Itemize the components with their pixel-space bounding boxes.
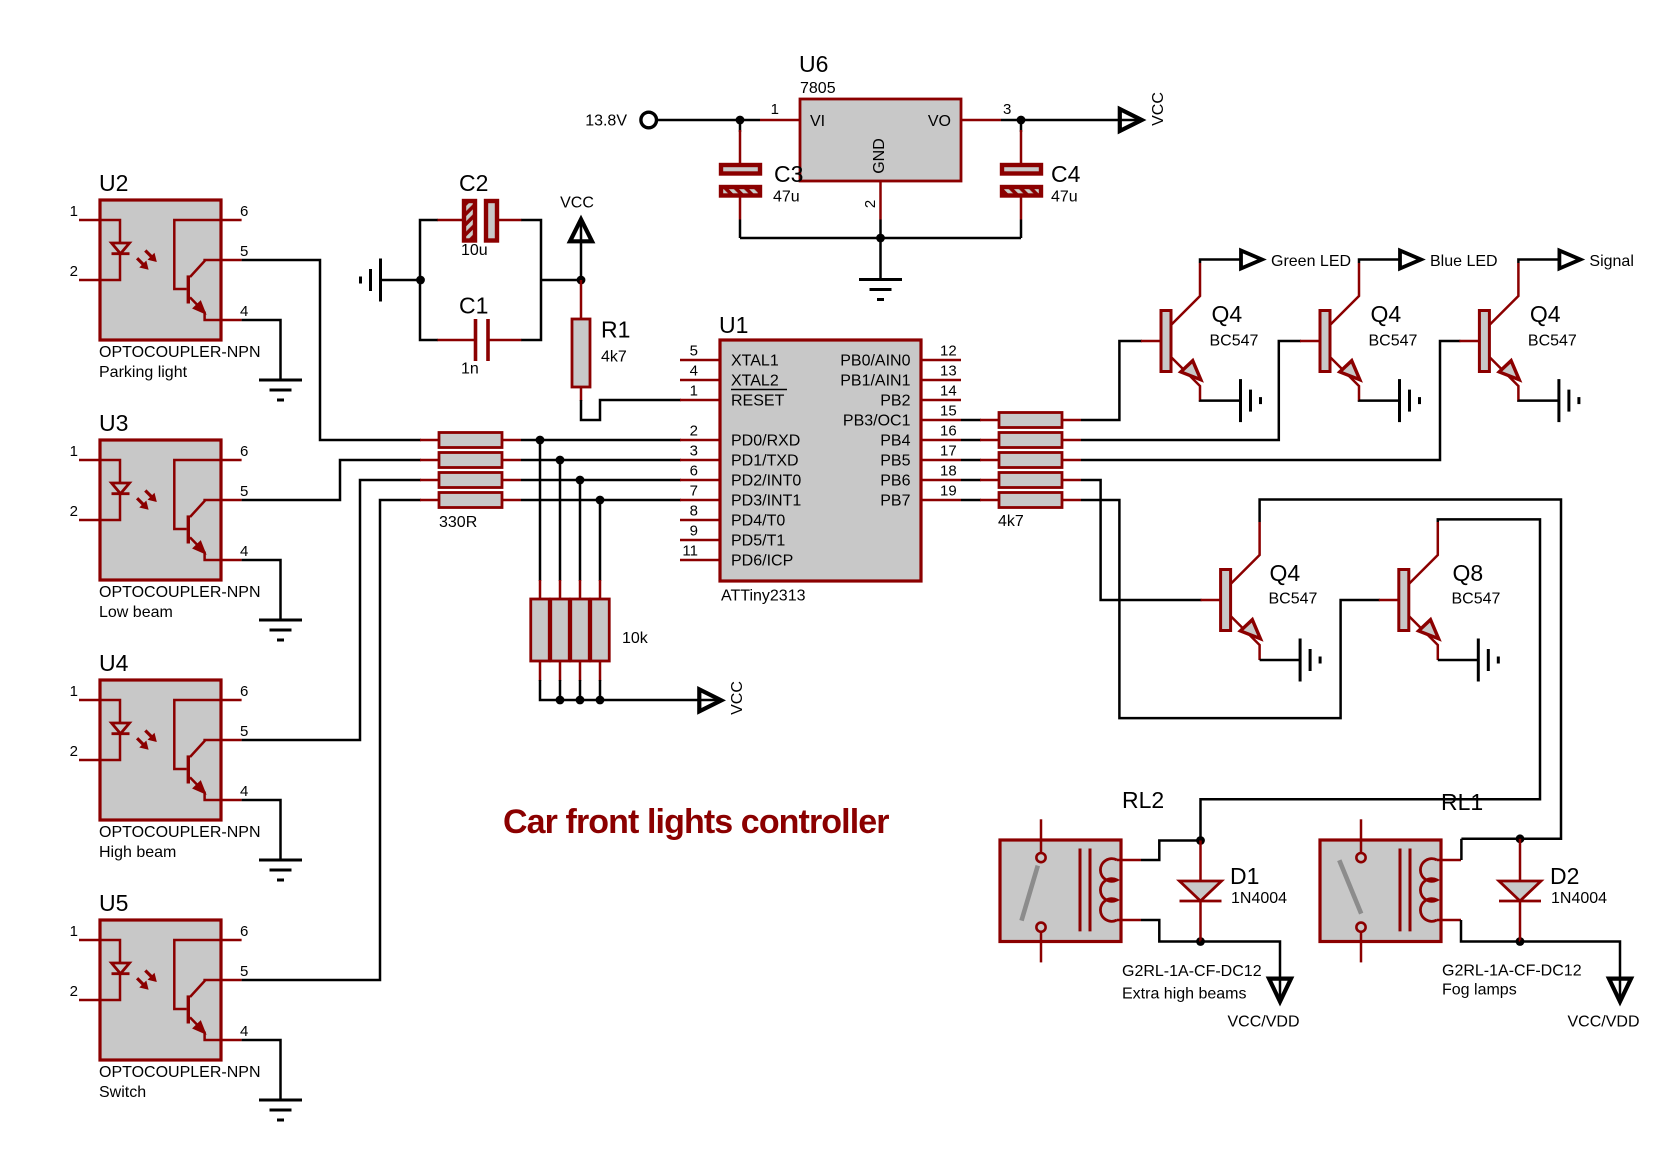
pin 10k r2 top	[559, 580, 562, 601]
svg-text:4: 4	[240, 1023, 248, 1040]
wire ground rail C3-GND-C4	[740, 237, 1021, 240]
U2 LED cathode bar	[112, 252, 130, 255]
wire RL1 coil bottom to node	[1461, 920, 1521, 942]
svg-text:Blue LED: Blue LED	[1430, 253, 1498, 270]
relay RL1 body	[1320, 840, 1441, 942]
svg-text:3: 3	[1003, 101, 1011, 118]
svg-text:1: 1	[70, 203, 78, 220]
wire U1 to 4k7 r3	[961, 459, 981, 462]
pin 4k7 r1 right	[1062, 419, 1081, 422]
svg-text:BC547: BC547	[1528, 333, 1577, 350]
wire loop right bottom	[521, 280, 541, 340]
power flag VCC (pullup rail)	[699, 689, 721, 711]
svg-text:4: 4	[690, 363, 698, 380]
U2 collector	[190, 260, 221, 277]
wire Q4d emitter to ground	[1260, 659, 1300, 662]
resistor 330R r1	[439, 433, 502, 448]
pin U3.2	[79, 519, 100, 522]
relay RL2 body	[1000, 840, 1121, 942]
svg-text:Q4: Q4	[1270, 560, 1301, 586]
U3 emitter	[190, 537, 221, 560]
pin U1.3 (PD1/TXD) stub	[680, 459, 720, 462]
wire Q4b collector up	[1359, 260, 1400, 264]
pin U2.1	[79, 219, 100, 222]
pin C1 right	[488, 339, 521, 342]
wire 4k7 PB6 to Q4d base	[1081, 480, 1202, 600]
U2 light arrow 1	[145, 251, 152, 258]
svg-text:1n: 1n	[461, 361, 479, 378]
RESET overline	[731, 389, 787, 391]
U2 emitter	[190, 297, 221, 320]
pin C2 right	[498, 219, 522, 222]
optocoupler U5 body	[100, 920, 221, 1060]
pin U5.5	[221, 979, 242, 982]
svg-text:Low beam: Low beam	[99, 604, 173, 621]
pin C2 left	[438, 219, 464, 222]
junction PD2/pullup	[576, 476, 585, 485]
svg-text:6: 6	[240, 203, 248, 220]
wire 4k7 to Q4a base	[1081, 341, 1142, 420]
junction loop left	[416, 276, 425, 285]
svg-text:11: 11	[682, 543, 698, 560]
Q4a emitter arrowhead	[1181, 361, 1201, 380]
wire loop right top	[521, 220, 541, 280]
resistor 10k r4	[591, 599, 610, 661]
U4 LED triangle	[112, 723, 130, 734]
svg-text:5: 5	[690, 343, 698, 360]
wire R1 to RESET	[581, 400, 681, 420]
U3 LED cathode wire	[100, 494, 120, 520]
pin Q4c emitter	[1489, 357, 1518, 401]
resistor 4k7 r3	[999, 453, 1062, 468]
pin U1.15 (PB3/OC1) stub	[921, 419, 961, 422]
Q4c emitter arrowhead	[1499, 361, 1519, 380]
U3 transistor base bar	[187, 515, 190, 543]
U3 LED triangle	[112, 483, 130, 494]
capacitor C1 plate A	[474, 319, 478, 361]
wire pullup rail to VCC	[540, 680, 720, 700]
pin 4k7 r1 left	[980, 419, 999, 422]
svg-text:47u: 47u	[773, 189, 800, 206]
wire U2.4 to ground	[242, 320, 281, 380]
svg-text:2: 2	[70, 263, 78, 280]
U5 base wire	[174, 940, 221, 1009]
capacitor C2 plate +	[486, 201, 497, 241]
pin Q4c collector	[1489, 263, 1518, 325]
RL1 contact circle bottom	[1356, 923, 1365, 932]
capacitor C2 plate - (hatched)	[464, 201, 475, 241]
svg-text:Car front lights controller: Car front lights controller	[503, 803, 889, 841]
svg-text:1: 1	[771, 101, 779, 118]
wire 4k7 PB7 to Q8 base	[1081, 500, 1380, 718]
svg-text:2: 2	[862, 200, 879, 208]
svg-text:Signal: Signal	[1589, 253, 1633, 270]
RL1 coil core bar 1	[1399, 849, 1402, 932]
ground (U6)	[859, 280, 902, 300]
pin U3.6	[221, 459, 242, 462]
svg-text:4: 4	[240, 783, 248, 800]
pin 10k r1 top	[539, 580, 542, 601]
U4 collector	[190, 740, 221, 757]
svg-text:18: 18	[940, 463, 957, 480]
svg-text:PB2: PB2	[880, 392, 910, 409]
svg-text:47u: 47u	[1051, 189, 1078, 206]
pin U4.4	[221, 799, 242, 802]
pin U1.6 (PD2/INT0) stub	[680, 479, 720, 482]
resistor 330R r2	[439, 453, 502, 468]
wire Q4b emitter to ground	[1359, 399, 1399, 402]
U2 emitter arrowhead	[193, 301, 205, 313]
ground (Q8)	[1478, 639, 1498, 682]
U3 base wire	[174, 460, 221, 529]
wire Q4c collector up	[1518, 260, 1559, 264]
U4 LED cathode wire	[100, 734, 120, 760]
svg-text:1: 1	[70, 683, 78, 700]
pin U6 VO stub	[961, 119, 1001, 122]
ground (U4)	[259, 860, 302, 880]
svg-text:13.8V: 13.8V	[585, 113, 627, 130]
microcontroller U1 body	[720, 340, 921, 581]
wire C3 top black	[739, 120, 742, 132]
wire RL2 coil bottom to node	[1141, 920, 1201, 942]
pin 4k7 r3 left	[980, 459, 999, 462]
pin U5.4	[221, 1039, 242, 1042]
wire 13.8V to VI	[657, 119, 761, 122]
U5 light arrow 2	[137, 978, 144, 985]
junction D1 anode	[1196, 836, 1205, 845]
pin Q4a emitter	[1171, 357, 1200, 401]
optocoupler U4 body	[100, 680, 221, 820]
pin RL2 contact bottom	[1040, 932, 1043, 963]
pin Q8 collector	[1409, 522, 1438, 584]
svg-text:PB0/AIN0: PB0/AIN0	[840, 352, 910, 369]
ground (Q4b)	[1400, 379, 1420, 422]
ground (U5)	[259, 1100, 302, 1120]
wire 4k7 to Q4b base	[1081, 341, 1301, 440]
svg-text:Q4: Q4	[1371, 301, 1402, 327]
svg-text:VCC: VCC	[560, 195, 594, 212]
U5 LED cathode wire	[100, 974, 120, 1000]
pin U1.16 (PB4) stub	[921, 439, 961, 442]
wire U2.5 to RN row1	[242, 260, 421, 440]
voltage regulator U6 7805	[800, 99, 961, 181]
wire D1 node to VCC/VDD	[1201, 942, 1281, 1001]
svg-text:VCC: VCC	[729, 681, 746, 715]
svg-text:ATTiny2313: ATTiny2313	[721, 588, 806, 605]
wire VCC stem	[580, 221, 583, 280]
U3 emitter arrowhead	[193, 541, 205, 553]
wire pullup 3 vertical	[579, 480, 582, 581]
wire C3 top	[739, 130, 742, 165]
pin 4k7 r2 left	[980, 439, 999, 442]
RL2 contact circle top	[1036, 853, 1045, 862]
svg-text:Q4: Q4	[1530, 301, 1561, 327]
resistor 4k7 r1	[999, 413, 1062, 428]
pin RL1 coil top	[1437, 859, 1461, 862]
svg-text:Parking light: Parking light	[99, 364, 188, 381]
svg-text:12: 12	[940, 343, 957, 360]
svg-text:5: 5	[240, 483, 248, 500]
junction input/C3	[736, 116, 745, 125]
resistor 10k r1	[531, 599, 550, 661]
pin D2 cathode	[1519, 901, 1522, 942]
svg-text:XTAL1: XTAL1	[731, 352, 779, 369]
transistor Q4d base bar	[1221, 570, 1231, 631]
svg-text:OPTOCOUPLER-NPN: OPTOCOUPLER-NPN	[99, 344, 261, 361]
wire Q4c emitter to ground	[1518, 399, 1558, 402]
svg-text:14: 14	[940, 383, 957, 400]
wire pullup 4 vertical	[599, 500, 602, 581]
pin 330R r2 right	[502, 459, 521, 462]
diode D1 cathode bar	[1180, 900, 1222, 903]
U4 light arrow 1	[145, 731, 152, 738]
U4 emitter arrowhead	[193, 781, 205, 793]
pin Q4d base stub	[1201, 599, 1221, 602]
svg-text:2: 2	[70, 983, 78, 1000]
resistor 330R r3	[439, 473, 502, 488]
pin U5.2	[79, 999, 100, 1002]
RL2 coil core bar 1	[1079, 849, 1082, 932]
U5 LED cathode bar	[112, 972, 130, 975]
svg-text:5: 5	[240, 723, 248, 740]
svg-text:PB4: PB4	[880, 432, 910, 449]
svg-text:U3: U3	[99, 410, 128, 436]
svg-text:OPTOCOUPLER-NPN: OPTOCOUPLER-NPN	[99, 824, 261, 841]
svg-text:1: 1	[70, 443, 78, 460]
junction VO/C4	[1017, 116, 1026, 125]
wire 330R r1 to U1	[521, 439, 681, 442]
svg-text:RL2: RL2	[1122, 787, 1164, 813]
U2 transistor base bar	[187, 275, 190, 303]
svg-text:17: 17	[940, 443, 957, 460]
svg-text:15: 15	[940, 403, 957, 420]
U3 LED anode wire	[100, 460, 120, 483]
capacitor C3 plate - (hatched)	[721, 187, 760, 196]
svg-text:VCC/VDD: VCC/VDD	[1567, 1014, 1639, 1031]
U4 light arrow 2	[137, 738, 144, 745]
svg-text:Green LED: Green LED	[1271, 253, 1351, 270]
U3 LED cathode bar	[112, 492, 130, 495]
RL2 coil winding	[1100, 859, 1117, 922]
pin U1.5 (XTAL1) stub	[680, 359, 720, 362]
svg-text:D1: D1	[1230, 863, 1259, 889]
RL1 contact circle top	[1356, 853, 1365, 862]
U3 light arrow 2	[137, 498, 144, 505]
wire RL2 coil top to node	[1141, 841, 1201, 861]
U4 LED anode wire	[100, 700, 120, 723]
svg-text:5: 5	[240, 243, 248, 260]
pin U1.8 (PD4/T0) stub	[680, 519, 720, 522]
wire C3 bottom	[739, 196, 742, 220]
power flag VCC/VDD (RL1)	[1609, 979, 1631, 1002]
resistor 10k r3	[571, 599, 590, 661]
svg-text:G2RL-1A-CF-DC12: G2RL-1A-CF-DC12	[1122, 963, 1262, 980]
svg-text:1N4004: 1N4004	[1551, 890, 1607, 907]
U2 LED triangle	[112, 243, 130, 254]
pin D2 anode	[1519, 839, 1522, 881]
U3 collector	[190, 500, 221, 517]
ground (Q4a)	[1241, 379, 1261, 422]
svg-text:PD0/RXD: PD0/RXD	[731, 432, 800, 449]
pin 10k r4 bottom	[599, 660, 602, 681]
pin U1.14 (PB2) stub	[921, 399, 961, 402]
pin Q4a collector	[1171, 263, 1200, 325]
svg-text:8: 8	[690, 503, 698, 520]
ground (C2/C1)	[361, 259, 381, 302]
transistor Q4c base bar	[1479, 311, 1489, 372]
wire U1 to 4k7 r1	[961, 419, 981, 422]
U5 light arrow 1	[145, 971, 152, 978]
svg-text:7805: 7805	[800, 80, 836, 97]
svg-text:10u: 10u	[461, 242, 488, 259]
signal flag Signal	[1559, 251, 1580, 269]
U3 light arrow 1	[145, 491, 152, 498]
U4 base wire	[174, 700, 221, 769]
svg-text:PD5/T1: PD5/T1	[731, 532, 785, 549]
pin U1.19 (PB7) stub	[921, 499, 961, 502]
wire pullup2 drop	[559, 680, 562, 700]
pin U3.1	[79, 459, 100, 462]
pin U5.1	[79, 939, 100, 942]
wire Q8 emitter to ground	[1438, 659, 1478, 662]
pin RL1 contact bottom	[1360, 932, 1363, 963]
svg-text:U1: U1	[719, 312, 748, 338]
transistor Q4b base bar	[1320, 311, 1330, 372]
wire U6 GND down	[879, 220, 882, 239]
wire D2 node to VCC/VDD	[1520, 942, 1620, 1001]
resistor 330R r4	[439, 493, 502, 508]
wire U4.5 to RN row3	[242, 480, 421, 740]
junction D2 cathode	[1516, 937, 1525, 946]
U2 light arrow 2	[137, 258, 144, 265]
transistor Q4a base bar	[1161, 311, 1171, 372]
ground (U2)	[259, 380, 302, 400]
wire Q8 collector to RL2 coil	[1201, 519, 1541, 840]
pin U1.9 (PD5/T1) stub	[680, 539, 720, 542]
pin U1.11 (PD6/ICP) stub	[680, 559, 720, 562]
junction PD3/pullup	[596, 496, 605, 505]
svg-text:High beam: High beam	[99, 844, 176, 861]
pin D1 anode	[1199, 841, 1202, 882]
U5 transistor base bar	[187, 995, 190, 1023]
ground (Q4c)	[1559, 379, 1579, 422]
pin 4k7 r2 right	[1062, 439, 1081, 442]
pin U2.5	[221, 259, 242, 262]
svg-text:16: 16	[940, 423, 957, 440]
svg-text:RESET: RESET	[731, 392, 785, 409]
svg-text:BC547: BC547	[1369, 333, 1418, 350]
wire C4 top	[1020, 130, 1023, 165]
pin RL1 coil bottom	[1437, 919, 1461, 922]
wire U1 to 4k7 r4	[961, 479, 981, 482]
svg-text:PB1/AIN1: PB1/AIN1	[840, 372, 910, 389]
svg-text:6: 6	[240, 443, 248, 460]
svg-text:Q8: Q8	[1453, 560, 1484, 586]
wire ground stem U6	[879, 238, 882, 280]
svg-text:PB3/OC1: PB3/OC1	[843, 412, 911, 429]
pin U6 GND stub	[879, 181, 882, 220]
svg-text:PB7: PB7	[880, 492, 910, 509]
junction PD1/pullup	[556, 456, 565, 465]
diode D1 triangle	[1180, 881, 1222, 901]
pin 10k r2 bottom	[559, 660, 562, 681]
wire Q4a emitter to ground	[1200, 399, 1240, 402]
svg-text:RL1: RL1	[1441, 789, 1483, 815]
svg-text:U4: U4	[99, 650, 129, 676]
svg-text:BC547: BC547	[1269, 591, 1318, 608]
Q4d emitter arrowhead	[1240, 620, 1260, 639]
pin U2.2	[79, 279, 100, 282]
wire C3 bottom black	[739, 220, 742, 239]
ground (Q4d)	[1300, 639, 1320, 682]
svg-text:6: 6	[240, 923, 248, 940]
RL2 switch lever	[1022, 866, 1038, 921]
U4 transistor base bar	[187, 755, 190, 783]
pin Q4d emitter	[1231, 616, 1260, 660]
U2 LED cathode wire	[100, 254, 120, 280]
pin Q4a base stub	[1141, 340, 1161, 343]
RL2 coil core bar 2	[1089, 849, 1092, 932]
pin 330R r1 right	[502, 439, 521, 442]
pin U1.1 (RESET) stub	[680, 399, 720, 402]
pin Q8 base stub	[1379, 599, 1399, 602]
resistor 4k7 r5	[999, 493, 1062, 508]
svg-text:VO: VO	[928, 113, 951, 130]
resistor 4k7 r4	[999, 473, 1062, 488]
resistor R1	[572, 319, 590, 387]
RL1 coil winding	[1420, 859, 1437, 922]
Q4b emitter arrowhead	[1340, 361, 1360, 380]
svg-text:6: 6	[690, 463, 698, 480]
svg-text:C4: C4	[1051, 161, 1081, 187]
pin Q8 emitter	[1409, 616, 1438, 660]
pin RL1 contact top	[1360, 819, 1363, 852]
resistor 10k r2	[551, 599, 570, 661]
pin C1 left	[438, 339, 476, 342]
junction D1 cathode	[1196, 937, 1205, 946]
pin 10k r1 bottom	[539, 660, 542, 681]
svg-text:9: 9	[690, 523, 698, 540]
power flag VCC/VDD (RL2)	[1269, 979, 1291, 1002]
wire U4.4 to ground	[242, 800, 281, 860]
pin U1.7 (PD3/INT1) stub	[680, 499, 720, 502]
svg-text:4: 4	[240, 303, 248, 320]
wire Q4a collector up	[1200, 260, 1241, 264]
capacitor C1 plate B	[486, 319, 490, 361]
pin Q4d collector	[1231, 522, 1260, 584]
pin Q4b emitter	[1330, 357, 1359, 401]
pin R1 top	[580, 280, 583, 320]
junction VCC/R1 node	[577, 276, 586, 285]
svg-text:PB5: PB5	[880, 452, 910, 469]
svg-text:2: 2	[70, 503, 78, 520]
pin 330R r1 left	[420, 439, 439, 442]
resistor 4k7 r2	[999, 433, 1062, 448]
svg-text:2: 2	[70, 743, 78, 760]
svg-text:PD1/TXD: PD1/TXD	[731, 452, 799, 469]
svg-text:VCC: VCC	[1150, 92, 1167, 126]
svg-text:Extra high beams: Extra high beams	[1122, 986, 1247, 1003]
wire 4k7 to Q4c base	[1081, 341, 1460, 460]
svg-text:19: 19	[940, 483, 957, 500]
pin 330R r2 left	[420, 459, 439, 462]
pin U4.6	[221, 699, 242, 702]
terminal 13.8V input	[641, 112, 657, 128]
pin RL2 contact top	[1040, 819, 1043, 852]
capacitor C4 plate +	[1002, 165, 1041, 174]
wire U5.5 to RN row4	[242, 500, 421, 980]
pin U4.1	[79, 699, 100, 702]
